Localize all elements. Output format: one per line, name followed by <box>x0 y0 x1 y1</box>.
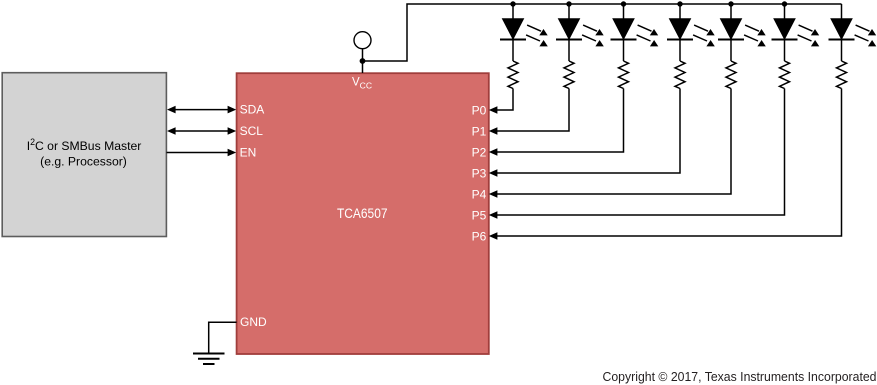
arrowhead into pin P6 <box>489 232 498 240</box>
LED D6 <box>774 19 795 39</box>
svg-text:(e.g. Processor): (e.g. Processor) <box>40 154 127 168</box>
LED D5 <box>721 19 742 39</box>
wire Vcc rail to LED anodes <box>363 4 842 61</box>
resistor R3 <box>619 61 629 88</box>
light emission arrows LED D2 <box>582 25 604 46</box>
arrowhead into pin P4 <box>489 190 498 198</box>
arrowhead into pin P5 <box>489 211 498 219</box>
svg-text:P3: P3 <box>472 166 487 180</box>
LED D3 <box>613 19 634 39</box>
svg-text:SDA: SDA <box>240 103 265 117</box>
wire LED D2 cathode to resistor R2 <box>568 39 570 61</box>
wire LED D6 cathode to resistor R6 <box>784 39 786 61</box>
wire net P0: resistor R1 to pin P0 <box>497 89 514 111</box>
wire Vcc terminal to IC Vcc pin <box>362 49 364 73</box>
resistor R4 <box>675 61 685 88</box>
wire/arrow SDA (bidirectional) <box>169 109 234 111</box>
LED D7 <box>831 19 852 39</box>
arrowhead into pin P1 <box>489 127 498 135</box>
svg-text:Copyright © 2017, Texas Instru: Copyright © 2017, Texas Instruments Inco… <box>603 369 877 384</box>
svg-text:I2C or SMBus Master: I2C or SMBus Master <box>27 137 142 153</box>
wire/arrow EN <box>167 152 235 154</box>
wire net P6: resistor R7 to pin P6 <box>497 89 842 237</box>
wire rail to LED D3 anode <box>623 4 625 19</box>
resistor R7 <box>837 61 847 88</box>
wire/arrow SCL (bidirectional) <box>169 130 234 132</box>
LED D4 <box>670 19 691 39</box>
light emission arrows LED D1 <box>526 25 548 46</box>
junction dot rail / LED D6 <box>782 1 787 6</box>
svg-text:SCL: SCL <box>240 124 264 138</box>
I2C / SMBus master block <box>2 73 166 237</box>
wire net P3: resistor R4 to pin P3 <box>497 89 681 174</box>
light emission arrows LED D7 <box>855 25 877 46</box>
svg-text:P4: P4 <box>472 187 487 201</box>
light emission arrows LED D5 <box>744 25 766 46</box>
wire rail to LED D7 anode <box>841 4 843 19</box>
light emission arrows LED D4 <box>693 25 715 46</box>
resistor R1 <box>508 61 518 88</box>
junction dot rail / LED D4 <box>677 1 682 6</box>
wire net P4: resistor R5 to pin P4 <box>497 89 732 195</box>
wire net P2: resistor R3 to pin P2 <box>497 89 624 153</box>
LED D2 <box>559 19 580 39</box>
arrowhead into pin P2 <box>489 148 498 156</box>
junction dot rail / LED D2 <box>566 1 571 6</box>
wire LED D3 cathode to resistor R3 <box>623 39 625 61</box>
svg-text:EN: EN <box>240 146 257 160</box>
wire rail to LED D4 anode <box>679 4 681 19</box>
svg-text:GND: GND <box>240 315 267 329</box>
wire rail to LED D5 anode <box>730 4 732 19</box>
svg-text:P1: P1 <box>472 124 487 138</box>
junction dot rail / LED D3 <box>621 1 626 6</box>
svg-text:P0: P0 <box>472 103 487 117</box>
svg-text:P6: P6 <box>472 229 487 243</box>
wire LED D4 cathode to resistor R4 <box>679 39 681 61</box>
LED D1 <box>503 19 524 39</box>
wire net P1: resistor R2 to pin P1 <box>497 89 570 132</box>
light emission arrows LED D3 <box>637 25 659 46</box>
Vcc supply terminal symbol <box>354 32 371 49</box>
wire net P5: resistor R6 to pin P5 <box>497 89 785 216</box>
wire GND pin to ground <box>209 322 237 353</box>
resistor R5 <box>726 61 736 88</box>
junction dot Vcc node <box>360 58 366 64</box>
IC U1 TCA6507 block <box>237 73 489 354</box>
wire rail to LED D2 anode <box>568 4 570 19</box>
light emission arrows LED D6 <box>798 25 820 46</box>
svg-text:P2: P2 <box>472 145 487 159</box>
wire LED D5 cathode to resistor R5 <box>730 39 732 61</box>
junction dot rail / LED D1 <box>510 1 515 6</box>
svg-text:P5: P5 <box>472 208 487 222</box>
svg-text:TCA6507: TCA6507 <box>337 206 388 221</box>
resistor R2 <box>564 61 574 88</box>
arrowhead into pin P3 <box>489 169 498 177</box>
arrowhead into pin P0 <box>489 106 498 114</box>
junction dot rail / LED D5 <box>728 1 733 6</box>
ground symbol <box>193 354 225 365</box>
resistor R6 <box>780 61 790 88</box>
wire rail to LED D6 anode <box>784 4 786 19</box>
wire LED D7 cathode to resistor R7 <box>841 39 843 61</box>
wire LED D1 cathode to resistor R1 <box>512 39 514 61</box>
wire rail to LED D1 anode <box>512 4 514 19</box>
